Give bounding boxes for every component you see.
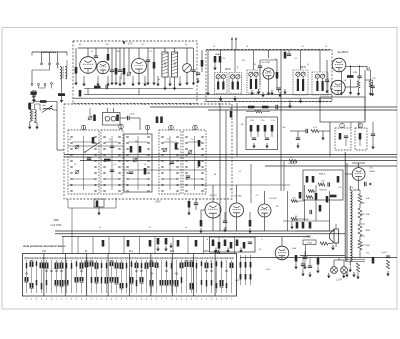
switch contact bbox=[44, 84, 46, 86]
resistor R2 bbox=[75, 67, 78, 74]
resistor R5 bbox=[123, 68, 126, 75]
svg-text:8h: 8h bbox=[79, 44, 81, 46]
svg-text:1k: 1k bbox=[213, 46, 215, 48]
wire bbox=[220, 50, 222, 73]
switch column at 211.5 bbox=[210, 257, 212, 259]
shield box empty bbox=[320, 97, 365, 122]
svg-text:M: M bbox=[85, 250, 87, 253]
ground below speaker bbox=[331, 245, 334, 250]
riser wire bbox=[77, 237, 79, 254]
svg-text:6b: 6b bbox=[214, 174, 216, 176]
resistor bbox=[291, 218, 298, 221]
ground bbox=[299, 98, 302, 103]
riser wire bbox=[187, 237, 189, 254]
capacitor bbox=[212, 240, 215, 247]
resistor bbox=[320, 242, 328, 245]
resistor bbox=[200, 220, 203, 227]
wire bbox=[57, 52, 59, 63]
wire vertical bus 2 bbox=[225, 110, 227, 231]
antenna transformer T1 bbox=[60, 67, 62, 79]
svg-text:1M: 1M bbox=[135, 141, 138, 143]
ground bbox=[233, 96, 236, 101]
wire bbox=[138, 74, 140, 80]
riser wire bbox=[234, 237, 236, 254]
svg-text:15A: 15A bbox=[366, 213, 370, 216]
capacitor bbox=[303, 257, 307, 259]
resistor bbox=[104, 159, 111, 162]
wire bbox=[264, 217, 266, 231]
ground bbox=[185, 80, 188, 85]
capacitor C12 bbox=[370, 86, 374, 88]
output/power transformer core bbox=[344, 152, 346, 261]
svg-text:0.1: 0.1 bbox=[259, 249, 262, 251]
resistor bbox=[139, 146, 142, 153]
wire bbox=[107, 108, 109, 113]
switch column at 36.5 bbox=[35, 257, 37, 259]
resistor R11 zigzag bbox=[369, 81, 372, 88]
svg-text:1M: 1M bbox=[117, 51, 120, 53]
resistor bbox=[219, 56, 222, 63]
electrolytic cap column right bbox=[387, 256, 389, 258]
divider bbox=[107, 254, 109, 297]
resistor 10k bbox=[291, 200, 298, 203]
svg-text:4.7M: 4.7M bbox=[353, 72, 358, 74]
wire bbox=[68, 207, 116, 209]
svg-text:1M: 1M bbox=[169, 164, 172, 166]
switch column at 166.5 bbox=[165, 257, 167, 259]
ground bbox=[267, 90, 270, 95]
terminal bbox=[49, 63, 51, 65]
svg-text:50k: 50k bbox=[282, 127, 285, 129]
ground bbox=[97, 210, 100, 215]
svg-text:0.1: 0.1 bbox=[144, 104, 147, 106]
svg-text:5k: 5k bbox=[144, 164, 146, 166]
riser wire bbox=[92, 237, 94, 254]
wire bbox=[283, 161, 285, 191]
ground bbox=[156, 246, 159, 251]
resistor bbox=[262, 106, 269, 109]
wire stub bbox=[231, 39, 233, 51]
capacitor bbox=[170, 162, 174, 164]
capacitor on riser bbox=[177, 240, 180, 247]
riser wire bbox=[172, 237, 174, 254]
resistor bbox=[386, 260, 389, 269]
svg-text:0.1: 0.1 bbox=[295, 58, 298, 60]
svg-text:10k: 10k bbox=[229, 189, 232, 191]
ground bbox=[356, 274, 359, 279]
ground bbox=[239, 248, 242, 253]
svg-text:2k: 2k bbox=[91, 51, 93, 53]
switch column at 56.5 bbox=[55, 257, 57, 259]
ground bbox=[357, 91, 360, 96]
svg-text:1096: 1096 bbox=[53, 219, 59, 222]
svg-text:2k: 2k bbox=[69, 139, 71, 141]
switch bank outer rect bbox=[23, 254, 237, 297]
resistor 4.7k bbox=[311, 130, 319, 133]
resistor bbox=[317, 258, 320, 265]
resistor bbox=[315, 193, 318, 200]
divider bbox=[43, 254, 45, 297]
switch column at 96.5 bbox=[95, 257, 97, 259]
wire bbox=[283, 220, 330, 222]
capacitor bbox=[106, 85, 108, 89]
switch column at 141.5 bbox=[140, 257, 142, 259]
wire bbox=[345, 86, 357, 88]
switch column at 126.5 bbox=[125, 257, 127, 259]
switch column at 81.5 bbox=[80, 257, 82, 259]
pilot lamps bbox=[331, 267, 338, 274]
transformer T2 primary bbox=[30, 110, 32, 122]
bus B bbox=[64, 156, 397, 158]
switch column at 201.5 bbox=[200, 257, 202, 259]
wire bbox=[61, 79, 63, 93]
svg-text:0.1: 0.1 bbox=[302, 46, 305, 48]
grounds row under IF strip bbox=[250, 90, 253, 95]
svg-text:98M: 98M bbox=[365, 245, 369, 247]
resistor R2b bbox=[79, 90, 82, 97]
capacitor C9 bbox=[276, 88, 280, 90]
dashed box A with circled 1 bbox=[335, 128, 351, 150]
capacitor bbox=[296, 138, 300, 140]
ground bbox=[288, 103, 291, 108]
ground bbox=[349, 267, 352, 272]
svg-text:Tg: Tg bbox=[185, 44, 187, 46]
resistor bbox=[271, 125, 274, 132]
svg-text:vista posteriore dei tasti in: vista posteriore dei tasti in basso bbox=[23, 244, 66, 248]
switch column at 51.5 bbox=[50, 257, 52, 259]
wire bbox=[138, 48, 140, 58]
resistor bbox=[330, 195, 337, 198]
wire bbox=[349, 186, 351, 190]
svg-text:5k: 5k bbox=[185, 227, 187, 229]
svg-text:L.I'24: L.I'24 bbox=[336, 280, 342, 282]
wire bbox=[87, 48, 89, 57]
svg-text:1M: 1M bbox=[241, 124, 244, 126]
ground bbox=[386, 271, 389, 276]
capacitor on riser bbox=[149, 240, 152, 247]
svg-text:Via 16M1: Via 16M1 bbox=[262, 62, 272, 64]
switch column at 181.5 bbox=[180, 257, 182, 259]
resistor bbox=[302, 222, 305, 229]
svg-text:Via 6T6: Via 6T6 bbox=[269, 198, 277, 200]
ground bbox=[290, 224, 293, 229]
wire bbox=[236, 185, 238, 203]
switch wafer 2 number bbox=[119, 124, 124, 129]
wire bbox=[212, 185, 214, 202]
switch column at 151.5 bbox=[150, 257, 152, 259]
resistor bbox=[243, 242, 246, 249]
capacitor C11 bbox=[357, 76, 361, 78]
resistor 10 bbox=[306, 196, 313, 199]
ground bbox=[316, 268, 319, 273]
ground bbox=[252, 143, 255, 148]
ground bbox=[294, 264, 297, 269]
ground bbox=[74, 80, 77, 85]
switch column at 111.5 bbox=[110, 257, 112, 259]
wire AF rail bbox=[195, 184, 290, 186]
switch column at 86.5 bbox=[85, 257, 87, 259]
trimmer bbox=[133, 158, 137, 162]
ground bbox=[146, 80, 149, 85]
ground bbox=[110, 80, 113, 85]
wire bbox=[268, 79, 270, 90]
wire bbox=[57, 65, 59, 68]
resistor bbox=[296, 222, 299, 229]
capacitor bbox=[265, 138, 269, 140]
right AF cluster verticals bbox=[287, 191, 289, 231]
capacitor bbox=[310, 210, 312, 214]
svg-text:2k: 2k bbox=[191, 139, 193, 141]
assembly bottom component 2 bbox=[188, 201, 191, 208]
resistor bbox=[130, 146, 133, 153]
resistor zigzag bbox=[255, 110, 262, 113]
capacitor C3 bbox=[110, 70, 114, 72]
coil L4 tall form bbox=[171, 52, 177, 77]
svg-text:9a+6BG3: 9a+6BG3 bbox=[338, 51, 349, 54]
oscillator coil box bbox=[103, 113, 121, 126]
IF transformer MF2 bbox=[229, 73, 242, 94]
ground bbox=[340, 90, 343, 95]
wire rail inside box1 bbox=[84, 88, 193, 90]
resistor Tk bbox=[289, 160, 297, 163]
wire vertical bbox=[329, 122, 331, 156]
wire bbox=[138, 88, 140, 95]
svg-text:FM8.b: FM8.b bbox=[319, 174, 326, 176]
switch column at 171.5 bbox=[170, 257, 172, 259]
wafer 2 dashed box bbox=[101, 130, 123, 194]
svg-text:1M: 1M bbox=[242, 60, 245, 62]
switch column at 226.5 bbox=[225, 257, 227, 259]
svg-text:MF7b: MF7b bbox=[225, 69, 232, 71]
divider bbox=[214, 254, 216, 297]
svg-text:0.5: 0.5 bbox=[142, 44, 145, 46]
transformer core bbox=[31, 109, 33, 122]
resistor bbox=[372, 257, 375, 264]
IF transformer MF2b bbox=[247, 70, 260, 93]
wire bbox=[350, 122, 352, 128]
wire bbox=[234, 50, 236, 73]
svg-text:T1 MEGA: T1 MEGA bbox=[287, 162, 297, 165]
switch wafer 3 number bbox=[145, 125, 150, 130]
ground bbox=[223, 227, 226, 232]
capacitor bbox=[165, 238, 168, 245]
resistor bbox=[308, 190, 315, 193]
switch column at 231.5 bbox=[230, 257, 232, 259]
svg-text:0.1: 0.1 bbox=[204, 189, 207, 191]
ground bbox=[325, 88, 328, 93]
wire bbox=[264, 191, 266, 204]
svg-text:GMG: GMG bbox=[203, 250, 209, 253]
svg-text:0.5: 0.5 bbox=[256, 195, 259, 197]
svg-text:0.1: 0.1 bbox=[149, 227, 152, 229]
capacitor C4 bbox=[118, 70, 122, 72]
secondary windings zigzag bbox=[358, 194, 362, 203]
capacitor bbox=[224, 240, 227, 247]
resistor R6 bbox=[201, 60, 204, 67]
resistor bbox=[326, 196, 329, 203]
ground bbox=[349, 90, 352, 95]
riser wire bbox=[123, 237, 125, 254]
wire bbox=[75, 74, 77, 81]
ground bbox=[122, 80, 125, 85]
svg-text:3k: 3k bbox=[158, 79, 160, 81]
wire bbox=[260, 59, 277, 61]
wire bbox=[319, 130, 330, 132]
svg-text:2M: 2M bbox=[106, 44, 109, 46]
ground bbox=[163, 85, 166, 90]
ground bbox=[206, 90, 209, 95]
wire bbox=[49, 52, 51, 63]
wire long B bbox=[73, 97, 332, 99]
bus C bbox=[80, 160, 397, 162]
svg-text:M50CA: M50CA bbox=[320, 189, 328, 192]
capacitor bbox=[110, 170, 114, 172]
resistor bbox=[337, 176, 340, 183]
ground bbox=[169, 243, 172, 248]
wire vertical long bbox=[280, 50, 282, 191]
under-transformer wires bbox=[345, 259, 365, 261]
ground bbox=[308, 272, 311, 277]
resistor bbox=[93, 115, 96, 122]
switch column at 196.5 bbox=[195, 257, 197, 259]
FM tuner unit dashed box bbox=[73, 41, 197, 104]
wire bbox=[335, 224, 337, 229]
capacitor bbox=[344, 136, 348, 138]
svg-text:10k: 10k bbox=[321, 181, 324, 183]
svg-text:5k: 5k bbox=[246, 46, 248, 48]
wire bbox=[305, 245, 307, 256]
resistor bbox=[309, 222, 312, 229]
resistor bbox=[198, 160, 201, 167]
assembly horizontal wires bbox=[68, 145, 123, 147]
capacitor C10 bbox=[325, 80, 329, 82]
ground bbox=[192, 80, 195, 85]
bus A bbox=[64, 154, 397, 156]
wire bbox=[29, 102, 34, 104]
transformer primary winding bumps bbox=[350, 190, 352, 261]
capacitor bbox=[306, 129, 308, 133]
switch column at 46.5 bbox=[45, 257, 47, 259]
svg-text:0.1: 0.1 bbox=[114, 164, 117, 166]
wire bbox=[41, 52, 43, 63]
capacitor C13 with ground bbox=[371, 134, 375, 136]
svg-text:1k: 1k bbox=[74, 164, 76, 166]
trimmer CT1 bbox=[127, 72, 131, 76]
junction cluster right of bank bbox=[210, 237, 256, 252]
ground bbox=[199, 228, 202, 233]
resistor bbox=[299, 192, 302, 199]
switch column at 76.5 bbox=[75, 257, 77, 259]
capacitor 0.022 bbox=[128, 116, 130, 120]
capacitor C2 bbox=[94, 56, 98, 58]
wire bbox=[333, 260, 335, 267]
switch column at 156.5 bbox=[155, 257, 157, 259]
wire bbox=[34, 101, 40, 103]
resistor bbox=[29, 103, 32, 110]
ground bbox=[219, 96, 222, 101]
wire bbox=[358, 180, 360, 190]
svg-text:1k: 1k bbox=[307, 64, 309, 66]
resistor bbox=[198, 140, 201, 147]
grounds row in box1 bbox=[83, 76, 85, 81]
ground bbox=[265, 143, 268, 148]
switch column at 131.5 bbox=[130, 257, 132, 259]
switch column at 66.5 bbox=[65, 257, 67, 259]
ground bbox=[352, 272, 355, 277]
resistor R9 bbox=[347, 75, 354, 78]
switch column at 116.5 bbox=[115, 257, 117, 259]
resistor bbox=[156, 117, 159, 124]
ground bbox=[214, 248, 217, 253]
wire bbox=[345, 173, 352, 175]
ground bbox=[248, 228, 251, 233]
svg-text:VL TM1: VL TM1 bbox=[234, 196, 242, 198]
ground bbox=[152, 80, 155, 85]
switch column at 91.5 bbox=[90, 257, 92, 259]
resistor bbox=[218, 242, 221, 249]
transformer core bbox=[61, 67, 63, 80]
capacitor on riser bbox=[127, 240, 130, 247]
wire bbox=[341, 71, 343, 90]
svg-text:2k: 2k bbox=[197, 167, 199, 169]
bottom power bus bbox=[300, 255, 345, 257]
wafer 1 dashed box bbox=[68, 130, 99, 194]
svg-text:1k: 1k bbox=[210, 261, 212, 263]
ground bbox=[369, 91, 372, 96]
riser wire bbox=[139, 237, 141, 254]
capacitor bbox=[248, 242, 252, 244]
capacitor bbox=[365, 182, 367, 186]
wire under IF strip bbox=[204, 101, 332, 103]
variable coil bbox=[183, 64, 192, 73]
divider bbox=[64, 254, 66, 297]
switch column at 121.5 bbox=[120, 257, 122, 259]
capacitor bbox=[110, 146, 114, 148]
box 0.680 bbox=[303, 240, 316, 245]
resistor R3 bbox=[107, 54, 110, 61]
ground bbox=[301, 271, 304, 276]
wire antenna top bbox=[32, 51, 67, 53]
wire bbox=[47, 101, 58, 103]
resistor bbox=[257, 125, 260, 132]
dashed box B with circled 2 bbox=[355, 128, 367, 150]
wire bbox=[51, 85, 53, 89]
switch column at 41.5 bbox=[40, 257, 42, 259]
trimmer bbox=[188, 150, 192, 154]
resistor bbox=[40, 100, 47, 103]
resistor bbox=[312, 176, 315, 183]
wire bbox=[346, 65, 367, 67]
pickup jack symbol bbox=[32, 96, 37, 98]
standalone switch columns right of bank bbox=[240, 255, 242, 285]
svg-text:10k: 10k bbox=[294, 216, 297, 218]
ground bbox=[318, 98, 321, 103]
svg-text:50M4: 50M4 bbox=[303, 219, 309, 221]
svg-text:KLu: KLu bbox=[129, 250, 134, 253]
ground bbox=[226, 248, 229, 253]
capacitor C5 bbox=[146, 60, 150, 62]
resistor bbox=[94, 86, 101, 89]
wire bbox=[212, 218, 214, 231]
wire bbox=[56, 102, 58, 151]
switch column at 106.5 bbox=[105, 257, 107, 259]
wire bbox=[236, 217, 238, 231]
capacitor bbox=[129, 172, 133, 174]
speaker bbox=[334, 229, 339, 243]
capacitor C6 bbox=[191, 70, 195, 72]
wire bbox=[295, 230, 330, 232]
riser wire bbox=[218, 237, 220, 254]
